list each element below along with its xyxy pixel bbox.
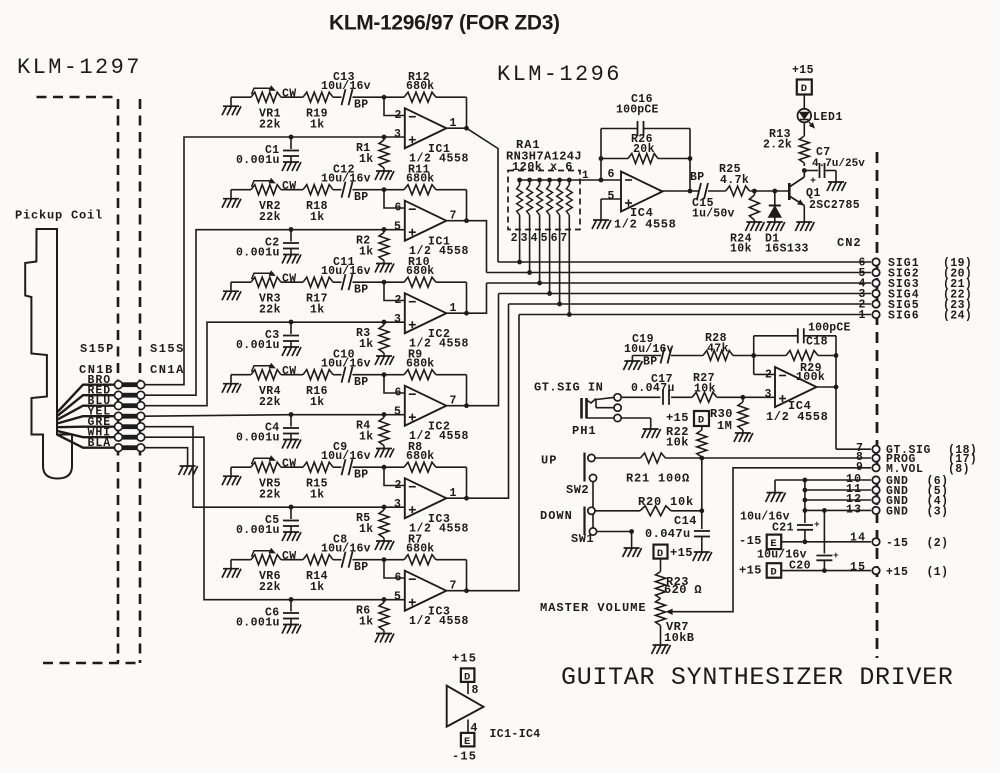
svg-text:10k: 10k <box>694 383 716 396</box>
svg-text:0.001u: 0.001u <box>236 247 280 260</box>
svg-text:1: 1 <box>859 309 866 322</box>
svg-text:22k: 22k <box>259 211 281 224</box>
svg-text:10u/16v: 10u/16v <box>321 172 371 185</box>
svg-text:E: E <box>770 538 776 550</box>
svg-text:10kB: 10kB <box>664 631 694 645</box>
svg-text:+15: +15 <box>670 546 693 560</box>
svg-text:M.VOL: M.VOL <box>886 463 924 476</box>
svg-text:22k: 22k <box>259 119 281 132</box>
svg-text:0.001u: 0.001u <box>236 154 280 167</box>
svg-text:IC1-IC4: IC1-IC4 <box>490 728 541 741</box>
svg-text:2: 2 <box>511 232 518 245</box>
svg-text:2: 2 <box>395 109 402 122</box>
svg-text:1M: 1M <box>717 419 732 433</box>
svg-text:5: 5 <box>394 406 401 419</box>
svg-text:BP: BP <box>643 356 657 369</box>
svg-text:3: 3 <box>394 313 401 326</box>
svg-text:+15: +15 <box>666 411 689 425</box>
svg-text:2.2k: 2.2k <box>763 139 792 152</box>
svg-text:16S133: 16S133 <box>765 243 809 256</box>
svg-text:BP: BP <box>354 98 368 111</box>
svg-text:680k: 680k <box>406 80 434 93</box>
svg-text:10u/16v: 10u/16v <box>321 80 371 93</box>
svg-text:1k: 1k <box>310 119 325 132</box>
svg-text:+: + <box>814 519 820 530</box>
svg-text:6: 6 <box>395 572 402 585</box>
svg-text:BLA: BLA <box>88 437 112 450</box>
svg-text:+: + <box>810 177 816 188</box>
svg-text:D: D <box>801 83 807 95</box>
svg-text:1/2 4558: 1/2 4558 <box>614 218 676 232</box>
svg-text:9: 9 <box>856 461 863 474</box>
svg-text:6: 6 <box>395 202 402 215</box>
svg-text:22k: 22k <box>259 489 281 502</box>
svg-text:3: 3 <box>765 388 772 401</box>
svg-text:DOWN: DOWN <box>540 509 573 523</box>
svg-text:3: 3 <box>521 232 528 245</box>
svg-text:D: D <box>770 567 776 579</box>
svg-text:+15: +15 <box>886 566 909 579</box>
svg-text:5: 5 <box>541 232 548 245</box>
svg-text:6: 6 <box>551 232 558 245</box>
svg-text:(2): (2) <box>927 537 949 550</box>
svg-text:PH1: PH1 <box>572 424 597 438</box>
svg-text:1k: 1k <box>359 153 374 166</box>
svg-text:(24): (24) <box>943 310 972 323</box>
svg-text:4.7u/25v: 4.7u/25v <box>812 158 865 170</box>
svg-text:CN1A: CN1A <box>150 363 185 377</box>
svg-text:10u/16v: 10u/16v <box>740 511 790 524</box>
svg-text:4: 4 <box>531 232 538 245</box>
svg-text:4.7k: 4.7k <box>720 174 749 187</box>
svg-text:47k: 47k <box>707 343 729 356</box>
svg-text:E: E <box>464 736 470 748</box>
svg-text:0.001u: 0.001u <box>236 524 280 537</box>
svg-text:22k: 22k <box>259 581 281 594</box>
svg-text:D: D <box>464 671 470 683</box>
svg-text:6: 6 <box>608 168 615 181</box>
svg-text:(3): (3) <box>927 505 949 518</box>
svg-text:10u/16v: 10u/16v <box>624 343 674 356</box>
svg-text:0.001u: 0.001u <box>236 432 280 445</box>
svg-text:5: 5 <box>608 190 615 203</box>
svg-text:+: + <box>833 550 839 561</box>
svg-text:10k: 10k <box>730 243 752 256</box>
svg-text:10u/16v: 10u/16v <box>757 549 807 562</box>
svg-text:22k: 22k <box>259 304 281 317</box>
svg-text:15: 15 <box>850 561 866 574</box>
svg-text:S15P: S15P <box>80 342 115 356</box>
svg-text:(8): (8) <box>948 463 970 476</box>
svg-text:S15S: S15S <box>150 342 185 356</box>
svg-text:13: 13 <box>846 503 862 516</box>
svg-text:0.047u: 0.047u <box>645 527 691 541</box>
svg-text:C14: C14 <box>674 514 697 528</box>
svg-text:SIG6: SIG6 <box>888 310 920 323</box>
svg-text:10u/16v: 10u/16v <box>321 357 371 370</box>
svg-text:1k: 1k <box>310 396 325 409</box>
svg-text:1k: 1k <box>359 431 374 444</box>
svg-text:LED1: LED1 <box>813 111 843 124</box>
svg-text:620 Ω: 620 Ω <box>664 583 702 597</box>
svg-text:2SC2785: 2SC2785 <box>809 199 860 212</box>
svg-text:CW: CW <box>282 550 296 563</box>
svg-text:+15: +15 <box>452 652 477 666</box>
svg-text:CW: CW <box>282 365 296 378</box>
svg-text:1k: 1k <box>310 304 325 317</box>
svg-text:D: D <box>657 548 663 560</box>
svg-text:CW: CW <box>282 273 296 286</box>
svg-text:1/2 4558: 1/2 4558 <box>766 410 828 424</box>
svg-text:-15: -15 <box>739 534 762 548</box>
svg-text:6: 6 <box>395 387 402 400</box>
svg-text:C18: C18 <box>806 336 828 349</box>
svg-text:+15: +15 <box>792 64 814 77</box>
svg-text:(1): (1) <box>927 566 949 579</box>
svg-text:GT.SIG IN: GT.SIG IN <box>534 381 603 395</box>
svg-text:5: 5 <box>394 591 401 604</box>
svg-text:3: 3 <box>394 128 401 141</box>
svg-text:UP: UP <box>541 454 557 468</box>
svg-text:BP: BP <box>354 376 368 389</box>
svg-text:CW: CW <box>282 458 296 471</box>
svg-text:1u/50v: 1u/50v <box>692 208 735 221</box>
svg-text:KLM-1296/97 (FOR ZD3): KLM-1296/97 (FOR ZD3) <box>329 12 560 35</box>
svg-text:+15: +15 <box>739 563 762 577</box>
svg-text:8: 8 <box>472 684 479 697</box>
svg-text:100pCE: 100pCE <box>808 322 851 335</box>
svg-text:2: 2 <box>395 294 402 307</box>
svg-text:1k: 1k <box>359 246 374 259</box>
svg-text:20k: 20k <box>633 143 655 156</box>
svg-text:1k: 1k <box>359 616 374 629</box>
svg-text:10k: 10k <box>666 436 689 450</box>
svg-text:680k: 680k <box>406 173 434 186</box>
svg-text:0.001u: 0.001u <box>236 617 280 630</box>
svg-text:680k: 680k <box>406 450 434 463</box>
svg-text:SW2: SW2 <box>566 483 589 497</box>
svg-text:22k: 22k <box>259 396 281 409</box>
svg-text:GUITAR SYNTHESIZER DRIVER: GUITAR SYNTHESIZER DRIVER <box>561 663 954 692</box>
svg-text:BP: BP <box>354 283 368 296</box>
svg-text:680k: 680k <box>406 265 434 278</box>
svg-text:-15: -15 <box>452 750 477 764</box>
svg-text:CW: CW <box>282 180 296 193</box>
svg-text:2: 2 <box>765 369 772 382</box>
svg-text:10u/16v: 10u/16v <box>321 265 371 278</box>
svg-text:GND: GND <box>886 505 909 518</box>
svg-text:BP: BP <box>354 191 368 204</box>
svg-text:680k: 680k <box>406 358 434 371</box>
svg-text:CW: CW <box>282 88 296 101</box>
svg-text:KLM-1297: KLM-1297 <box>17 55 142 80</box>
svg-text:2: 2 <box>395 479 402 492</box>
svg-text:1k: 1k <box>359 523 374 536</box>
svg-text:680k: 680k <box>406 543 434 556</box>
svg-text:0.001u: 0.001u <box>236 339 280 352</box>
svg-text:120k x 6: 120k x 6 <box>512 160 573 174</box>
svg-text:Pickup Coil: Pickup Coil <box>15 209 103 223</box>
svg-text:-15: -15 <box>886 537 909 550</box>
svg-text:R20 10k: R20 10k <box>638 495 694 509</box>
svg-text:BP: BP <box>690 171 704 184</box>
svg-text:KLM-1296: KLM-1296 <box>497 62 622 87</box>
svg-text:10u/16v: 10u/16v <box>321 542 371 555</box>
svg-text:1k: 1k <box>310 489 325 502</box>
svg-text:BP: BP <box>354 561 368 574</box>
svg-text:0.047u: 0.047u <box>631 382 675 395</box>
svg-text:1k: 1k <box>310 581 325 594</box>
svg-text:1k: 1k <box>359 338 374 351</box>
svg-text:10u/16v: 10u/16v <box>321 450 371 463</box>
svg-text:100k: 100k <box>796 371 825 384</box>
svg-text:5: 5 <box>394 221 401 234</box>
svg-text:MASTER VOLUME: MASTER VOLUME <box>540 601 647 615</box>
svg-text:CN2: CN2 <box>837 236 862 250</box>
svg-text:R21 100Ω: R21 100Ω <box>626 472 690 486</box>
svg-text:BP: BP <box>354 468 368 481</box>
svg-text:D: D <box>698 415 704 427</box>
svg-text:100pCE: 100pCE <box>616 104 659 117</box>
svg-text:7: 7 <box>560 232 567 245</box>
svg-text:1/2 4558: 1/2 4558 <box>409 615 469 628</box>
svg-text:SW1: SW1 <box>571 532 594 546</box>
svg-text:3: 3 <box>394 498 401 511</box>
svg-text:1k: 1k <box>310 211 325 224</box>
